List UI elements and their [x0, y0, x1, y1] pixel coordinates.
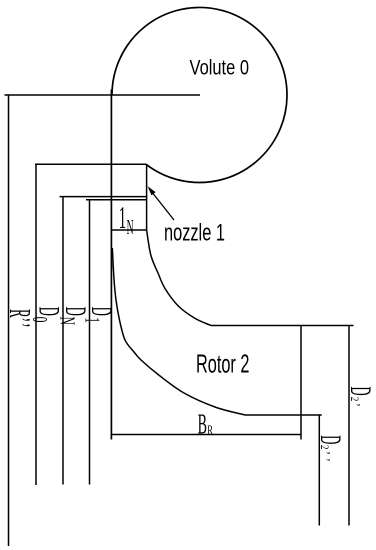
rotor top line [211, 325, 354, 327]
svg-text:D: D [344, 387, 376, 396]
D2' extension line [348, 326, 350, 526]
wire D0 extension line [35, 164, 37, 485]
nozzle leader arrow line [150, 189, 175, 220]
svg-text:1: 1 [81, 317, 105, 323]
nozzle leader arrowhead [148, 186, 156, 195]
svg-text:Volute 0: Volute 0 [190, 56, 249, 79]
wire DN extension line [62, 197, 64, 485]
axis line (machine centerline) [110, 90, 112, 440]
wire R'' radius line [5, 94, 201, 96]
wire D1 extension line [89, 200, 91, 485]
nozzle outer wall [146, 164, 148, 230]
rotor bottom line [245, 414, 322, 416]
BR dimension line [111, 434, 301, 436]
svg-text:N: N [56, 317, 80, 326]
shroud contour curve [147, 230, 211, 326]
wire R'' extension line [8, 95, 10, 546]
svg-text:nozzle 1: nozzle 1 [164, 219, 225, 246]
wire D1 level line [86, 199, 147, 201]
svg-text:Rotor 2: Rotor 2 [196, 349, 249, 379]
svg-text:0: 0 [28, 317, 52, 323]
volute circle (Volute 0 cross-section) [112, 7, 287, 182]
svg-text:R: R [207, 423, 213, 439]
D2'' extension line [318, 415, 320, 526]
rotor exit edge [300, 326, 302, 440]
hub contour curve [112, 248, 245, 415]
svg-text:2’’: 2’’ [318, 445, 333, 466]
svg-text:B: B [198, 408, 207, 440]
svg-text:2’: 2’ [348, 397, 363, 407]
svg-text:D: D [85, 307, 118, 316]
svg-text:D: D [314, 435, 347, 444]
svg-text:1N: 1N [119, 201, 134, 239]
wire DN level line [60, 196, 147, 198]
wire D0 level line [35, 163, 146, 165]
1N dimension line [111, 229, 147, 231]
